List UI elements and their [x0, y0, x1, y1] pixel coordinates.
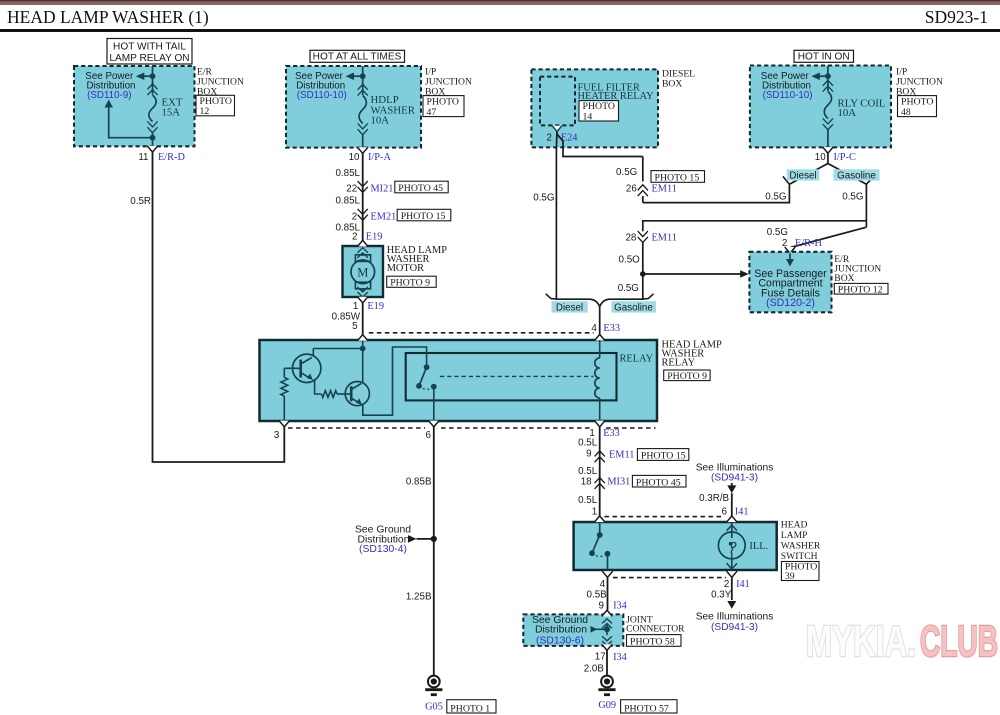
svg-text:BOX: BOX	[662, 78, 682, 89]
svg-text:LAMP RELAY ON: LAMP RELAY ON	[109, 53, 189, 64]
svg-text:47: 47	[427, 107, 437, 118]
svg-text:0.5B: 0.5B	[587, 589, 608, 600]
svg-text:10: 10	[349, 152, 360, 163]
svg-text:12: 12	[200, 106, 210, 117]
svg-text:BOX: BOX	[834, 273, 854, 284]
svg-text:PHOTO 12: PHOTO 12	[838, 284, 883, 295]
svg-text:MYKIA.: MYKIA.	[806, 617, 916, 666]
svg-text:(SD120-2): (SD120-2)	[766, 297, 815, 309]
svg-text:I/P-C: I/P-C	[834, 152, 856, 163]
svg-text:PHOTO 45: PHOTO 45	[636, 477, 681, 488]
svg-text:ILL.: ILL.	[749, 541, 768, 552]
svg-text:17: 17	[595, 652, 606, 663]
svg-text:MI21: MI21	[371, 184, 394, 195]
svg-text:2: 2	[724, 579, 729, 590]
svg-text:CONNECTOR: CONNECTOR	[626, 623, 685, 634]
svg-text:E/R-H: E/R-H	[795, 238, 822, 249]
svg-text:PHOTO: PHOTO	[901, 96, 933, 107]
svg-text:RELAY: RELAY	[620, 353, 654, 364]
svg-text:0.5O: 0.5O	[619, 254, 641, 265]
svg-text:PHOTO 1: PHOTO 1	[450, 703, 490, 714]
svg-text:G09: G09	[598, 700, 616, 711]
svg-text:PHOTO 9: PHOTO 9	[390, 278, 430, 289]
svg-text:HOT IN ON: HOT IN ON	[798, 52, 850, 63]
svg-text:CLUB: CLUB	[920, 617, 998, 666]
svg-text:E33: E33	[603, 428, 620, 439]
svg-text:0.3Y: 0.3Y	[711, 589, 732, 600]
svg-text:Gasoline: Gasoline	[837, 170, 876, 181]
svg-text:HEAD: HEAD	[781, 520, 808, 531]
svg-text:0.5R: 0.5R	[130, 196, 151, 207]
svg-text:4: 4	[600, 579, 606, 590]
svg-text:PHOTO 15: PHOTO 15	[641, 451, 686, 462]
svg-text:Distribution: Distribution	[535, 625, 587, 636]
svg-text:EM21: EM21	[371, 211, 397, 222]
svg-text:PHOTO 15: PHOTO 15	[655, 173, 700, 184]
svg-text:0.3R/B: 0.3R/B	[699, 493, 729, 504]
svg-text:1.25B: 1.25B	[406, 591, 432, 602]
svg-text:E33: E33	[603, 323, 620, 334]
svg-text:10: 10	[815, 152, 826, 163]
svg-text:6: 6	[721, 506, 727, 517]
svg-text:Diesel: Diesel	[789, 170, 816, 181]
svg-text:PHOTO 15: PHOTO 15	[401, 211, 446, 222]
svg-text:E/R-D: E/R-D	[158, 152, 185, 163]
svg-text:18: 18	[581, 477, 592, 488]
svg-text:39: 39	[785, 571, 795, 582]
svg-text:G05: G05	[425, 701, 443, 712]
svg-text:HOT WITH TAIL: HOT WITH TAIL	[113, 41, 186, 52]
svg-text:EM11: EM11	[652, 184, 677, 195]
svg-text:M: M	[357, 266, 368, 280]
svg-text:0.85B: 0.85B	[406, 477, 432, 488]
svg-text:0.5L: 0.5L	[578, 438, 598, 449]
svg-text:E19: E19	[366, 232, 383, 243]
svg-text:22: 22	[346, 184, 357, 195]
svg-text:1: 1	[592, 506, 597, 517]
svg-text:6: 6	[425, 430, 431, 441]
svg-text:0.5G: 0.5G	[533, 193, 554, 204]
svg-text:4: 4	[591, 323, 597, 334]
svg-text:11: 11	[138, 152, 148, 163]
svg-text:28: 28	[625, 233, 636, 244]
svg-text:10A: 10A	[371, 115, 390, 127]
svg-text:SD923-1: SD923-1	[925, 7, 988, 27]
svg-text:1: 1	[353, 301, 358, 312]
svg-text:Gasoline: Gasoline	[614, 303, 653, 314]
svg-text:I34: I34	[613, 600, 627, 611]
svg-text:0.5G: 0.5G	[618, 283, 639, 294]
svg-text:HEAD LAMP WASHER (1): HEAD LAMP WASHER (1)	[7, 7, 209, 27]
svg-text:26: 26	[626, 184, 637, 195]
svg-text:LAMP: LAMP	[781, 530, 808, 541]
svg-text:E19: E19	[367, 301, 384, 312]
svg-text:3: 3	[274, 430, 280, 441]
svg-text:PHOTO 57: PHOTO 57	[624, 703, 669, 714]
svg-text:RELAY: RELAY	[662, 358, 696, 369]
svg-text:0.5L: 0.5L	[578, 495, 598, 506]
svg-text:See Illuminations: See Illuminations	[696, 462, 774, 473]
svg-text:I41: I41	[735, 506, 749, 517]
svg-text:5: 5	[352, 321, 358, 332]
svg-text:2: 2	[352, 211, 357, 222]
svg-text:I/P-A: I/P-A	[368, 152, 391, 163]
svg-text:(SD130-6): (SD130-6)	[536, 635, 584, 646]
svg-text:14: 14	[583, 111, 593, 122]
svg-text:9: 9	[598, 600, 603, 611]
svg-text:(SD941-3): (SD941-3)	[711, 473, 758, 484]
svg-text:(SD110-9): (SD110-9)	[87, 90, 131, 101]
svg-text:PHOTO 58: PHOTO 58	[630, 637, 675, 648]
svg-text:0.85L: 0.85L	[335, 168, 360, 179]
svg-text:2: 2	[547, 132, 552, 143]
svg-text:0.5L: 0.5L	[578, 466, 598, 477]
svg-text:EM11: EM11	[652, 233, 677, 244]
svg-text:MI31: MI31	[607, 477, 630, 488]
svg-text:Diesel: Diesel	[556, 303, 583, 314]
svg-text:(SD941-3): (SD941-3)	[711, 622, 758, 633]
svg-text:15A: 15A	[162, 107, 181, 119]
svg-text:MOTOR: MOTOR	[387, 263, 424, 274]
svg-text:2: 2	[352, 232, 357, 243]
svg-text:0.85L: 0.85L	[335, 195, 360, 206]
svg-text:0.5G: 0.5G	[765, 192, 786, 203]
svg-text:PHOTO: PHOTO	[427, 96, 459, 107]
svg-text:48: 48	[901, 107, 911, 118]
svg-text:0.5G: 0.5G	[616, 167, 637, 178]
svg-text:WASHER: WASHER	[781, 541, 821, 552]
svg-text:(SD110-10): (SD110-10)	[297, 90, 347, 101]
svg-text:0.5G: 0.5G	[842, 192, 863, 203]
svg-text:I34: I34	[613, 652, 627, 663]
svg-text:PHOTO 45: PHOTO 45	[398, 183, 443, 194]
svg-text:EM11: EM11	[609, 450, 634, 461]
svg-text:9: 9	[586, 449, 591, 460]
svg-text:PHOTO 9: PHOTO 9	[667, 371, 707, 382]
svg-text:2.0B: 2.0B	[584, 663, 605, 674]
svg-text:0.5G: 0.5G	[767, 227, 788, 238]
svg-text:10A: 10A	[838, 107, 857, 119]
svg-text:HOT AT ALL TIMES: HOT AT ALL TIMES	[313, 52, 402, 63]
svg-text:(SD110-10): (SD110-10)	[763, 90, 813, 101]
svg-text:I41: I41	[736, 579, 750, 590]
svg-text:(SD130-4): (SD130-4)	[359, 544, 407, 555]
